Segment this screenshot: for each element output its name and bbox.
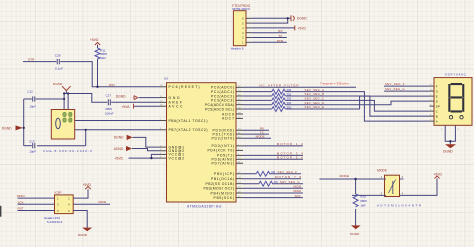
svg-text:SEV_SEG_E: SEV_SEG_E (305, 105, 325, 109)
svg-text:PB6(XTAL1 TOSC1): PB6(XTAL1 TOSC1) (169, 119, 208, 123)
svg-text:VCC@2: VCC@2 (169, 156, 185, 160)
svg-text:RX: RX (278, 29, 282, 33)
svg-text:PB5(SCK): PB5(SCK) (214, 196, 235, 200)
svg-text:DGND: DGND (78, 233, 88, 237)
svg-text:C13: C13 (29, 139, 35, 143)
svg-text:DGND: DGND (116, 94, 126, 98)
svg-text:10pF: 10pF (29, 150, 36, 154)
svg-text:C: C (436, 109, 438, 113)
svg-text:MOTOR_1_2: MOTOR_1_2 (277, 142, 303, 146)
svg-text:D: D (436, 99, 438, 103)
svg-text:+5VD: +5VD (83, 183, 92, 187)
svg-text:G: G (436, 89, 438, 93)
svg-text:ATMEGA328P-AU: ATMEGA328P-AU (187, 205, 222, 209)
svg-text:SEV_SEG_G: SEV_SEG_G (280, 180, 300, 184)
svg-text:E: E (436, 94, 438, 98)
svg-text:AGND: AGND (114, 147, 124, 151)
svg-text:MOTOR_5_6: MOTOR_5_6 (277, 156, 303, 160)
svg-text:PD3(INT1): PD3(INT1) (212, 144, 235, 148)
svg-text:R10: R10 (360, 194, 366, 198)
svg-text:CHE-8.000-50-1020-X: CHE-8.000-50-1020-X (43, 149, 92, 153)
svg-text:NC_AFTER_FILTER: NC_AFTER_FILTER (260, 83, 300, 87)
svg-text:A: A (436, 119, 438, 123)
svg-text:U3: U3 (164, 77, 168, 81)
svg-text:C27: C27 (106, 94, 112, 98)
svg-text:DGND: DGND (114, 136, 124, 140)
svg-text:DGND: DGND (350, 232, 360, 236)
svg-text:7 seg res = 330 ohm: 7 seg res = 330 ohm (320, 82, 349, 86)
svg-text:RST: RST (18, 207, 24, 211)
svg-text:MOSI: MOSI (99, 200, 107, 204)
svg-text:0805: 0805 (360, 199, 367, 203)
svg-text:PD4(XCK T0): PD4(XCK T0) (208, 149, 235, 153)
svg-text:0.1uF: 0.1uF (55, 67, 63, 71)
svg-text:SEV_SEG_G: SEV_SEG_G (385, 87, 405, 91)
svg-text:MOSI: MOSI (294, 185, 302, 189)
svg-text:R9: R9 (274, 180, 278, 184)
svg-text:MISO: MISO (294, 189, 302, 193)
svg-text:+5VD: +5VD (298, 26, 307, 30)
svg-text:5-146133-2: 5-146133-2 (47, 220, 63, 224)
svg-text:SCK: SCK (295, 194, 301, 198)
svg-text:SEV_SEG_F: SEV_SEG_F (385, 82, 405, 86)
svg-text:68789-406C#: 68789-406C# (232, 7, 250, 11)
svg-text:1kR: 1kR (360, 204, 366, 208)
svg-text:DP: DP (436, 104, 440, 108)
svg-text:F: F (436, 84, 438, 88)
svg-text:PB7(XTAL2 TOSC2): PB7(XTAL2 TOSC2) (169, 128, 208, 132)
svg-text:MODE: MODE (377, 169, 387, 173)
svg-text:MODE: MODE (340, 174, 349, 178)
svg-text:10pF: 10pF (29, 104, 36, 108)
svg-text:DGND: DGND (53, 82, 63, 86)
svg-text:R8: R8 (272, 170, 276, 174)
svg-text:DGND: DGND (297, 17, 307, 21)
svg-text:DTR: DTR (277, 39, 284, 43)
svg-text:PD7(AIN1): PD7(AIN1) (212, 162, 235, 166)
svg-text:PB3(MOSI OC2): PB3(MOSI OC2) (204, 187, 235, 191)
svg-text:330: 330 (287, 105, 292, 109)
svg-text:MOTOR_7_8: MOTOR_7_8 (275, 175, 301, 179)
svg-text:DTR: DTR (28, 57, 35, 61)
svg-text:SCK: SCK (18, 200, 24, 204)
svg-text:DGND: DGND (443, 150, 453, 154)
svg-text:B: B (436, 114, 438, 118)
svg-text:TX: TX (278, 34, 282, 38)
svg-text:RST: RST (109, 83, 115, 87)
svg-text:ADTSM31NV4NTR: ADTSM31NV4NTR (377, 203, 422, 207)
svg-text:MODE: MODE (256, 134, 265, 138)
svg-text:ADC7: ADC7 (222, 117, 234, 121)
svg-text:100nF: 100nF (105, 111, 114, 115)
svg-text:XDFY046C: XDFY046C (445, 72, 467, 76)
svg-text:PB4(MISO): PB4(MISO) (211, 191, 235, 195)
svg-text:+5VA: +5VA (122, 105, 131, 109)
svg-text:PB2(SS OC1B): PB2(SS OC1B) (206, 182, 235, 186)
svg-text:+5VD: +5VD (115, 157, 124, 161)
svg-text:SEV_SEG_F: SEV_SEG_F (278, 170, 298, 174)
svg-text:PD2(INT0): PD2(INT0) (212, 137, 235, 141)
svg-text:ICSP: ICSP (55, 191, 62, 195)
svg-text:GND: GND (169, 96, 181, 100)
svg-text:+5VD: +5VD (90, 38, 99, 42)
svg-text:MISO: MISO (17, 194, 25, 198)
svg-text:C28: C28 (55, 54, 61, 58)
svg-text:PC6(RESET): PC6(RESET) (169, 85, 200, 89)
svg-text:Header 6: Header 6 (231, 47, 244, 51)
svg-text:PB1(OC1A): PB1(OC1A) (211, 177, 234, 181)
svg-text:1kR: 1kR (100, 56, 106, 60)
svg-text:DGND: DGND (2, 127, 12, 131)
svg-text:ADC6: ADC6 (222, 112, 234, 116)
svg-text:PC5(ADC5 SCL): PC5(ADC5 SCL) (205, 107, 234, 111)
svg-text:+5VD: +5VD (434, 173, 443, 177)
svg-text:PB0(ICP): PB0(ICP) (214, 172, 234, 176)
svg-text:C12: C12 (27, 90, 33, 94)
